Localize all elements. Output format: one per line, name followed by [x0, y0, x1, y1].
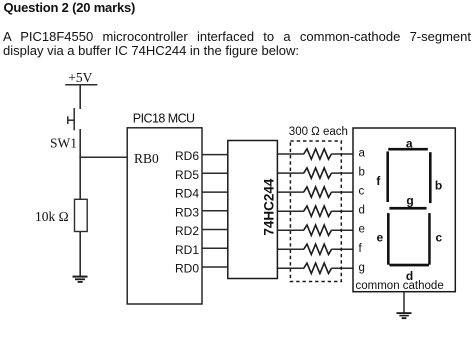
wire 74HC244 output to resistor (segment f)	[277, 248, 304, 250]
buffer U2 74HC244 box	[228, 141, 278, 279]
resistor 300 ohm (segment b)	[304, 168, 332, 178]
svg-text:common cathode: common cathode	[356, 280, 444, 292]
svg-text:RD3: RD3	[175, 205, 199, 219]
svg-text:+5V: +5V	[68, 70, 92, 85]
power +5V rail bar	[65, 84, 97, 86]
wire RD0 from MCU to 74HC244	[202, 266, 228, 268]
wire 74HC244 output to resistor (segment c)	[277, 191, 304, 193]
dashed box around resistors	[290, 141, 341, 282]
svg-text:f: f	[359, 243, 363, 255]
svg-text:f: f	[376, 174, 381, 188]
segment a bar	[388, 148, 428, 151]
svg-text:RD0: RD0	[175, 262, 199, 276]
wire resistor to display pin g	[331, 267, 353, 269]
svg-text:c: c	[436, 231, 443, 245]
ground (left, under 10k resistor)	[73, 276, 88, 283]
wire display common to ground	[403, 292, 405, 313]
svg-text:e: e	[376, 231, 383, 245]
wire resistor to display pin f	[331, 248, 353, 250]
wire +5V rail to switch	[79, 85, 81, 109]
svg-text:a: a	[406, 136, 413, 150]
microcontroller U1 PIC18 MCU box	[127, 128, 202, 304]
wire RD4 from MCU to 74HC244	[202, 191, 228, 193]
resistor 300 ohm (segment a)	[304, 149, 332, 159]
svg-text:74HC244: 74HC244	[262, 178, 277, 236]
wire RD2 from MCU to 74HC244	[202, 229, 228, 231]
wire RD5 from MCU to 74HC244	[202, 172, 228, 174]
svg-text:b: b	[435, 179, 442, 193]
svg-text:RD6: RD6	[175, 149, 199, 163]
wire resistor to display pin d	[331, 210, 353, 212]
segment g bar	[389, 207, 426, 210]
wire RD6 from MCU to 74HC244	[202, 154, 228, 156]
svg-text:RD4: RD4	[175, 187, 199, 201]
pushbutton switch SW1	[68, 108, 74, 130]
wire RD1 from MCU to 74HC244	[202, 247, 228, 249]
svg-text:c: c	[359, 186, 365, 198]
svg-text:RD1: RD1	[175, 243, 199, 257]
svg-text:d: d	[359, 205, 365, 217]
svg-text:a: a	[359, 148, 366, 160]
svg-text:PIC18 MCU: PIC18 MCU	[133, 111, 195, 125]
wire resistor to display pin b	[331, 172, 353, 174]
wire 74HC244 output to resistor (segment a)	[277, 153, 304, 155]
wire resistor to display pin c	[331, 191, 353, 193]
wire 74HC244 output to resistor (segment g)	[277, 267, 304, 269]
wire 74HC244 output to resistor (segment d)	[277, 210, 304, 212]
svg-text:RD2: RD2	[175, 224, 199, 238]
svg-text:g: g	[359, 262, 365, 274]
svg-text:g: g	[406, 194, 413, 208]
segment f bar	[386, 151, 389, 202]
wire 10k resistor to ground	[79, 232, 81, 277]
7-segment display box	[353, 128, 455, 292]
segment d bar	[389, 264, 429, 267]
resistor 300 ohm (segment c)	[304, 187, 332, 197]
svg-text:10k Ω: 10k Ω	[35, 209, 69, 224]
svg-text:b: b	[359, 167, 365, 179]
svg-text:300 Ω each: 300 Ω each	[289, 126, 348, 138]
resistor 300 ohm (segment g)	[304, 263, 332, 273]
resistor 300 ohm (segment e)	[304, 225, 332, 235]
wire resistor to display pin e	[331, 229, 353, 231]
svg-text:SW1: SW1	[50, 136, 77, 151]
resistor 10k ohm (box symbol)	[75, 199, 88, 231]
wire RD3 from MCU to 74HC244	[202, 210, 228, 212]
ground (right, under display)	[397, 312, 412, 319]
resistor 300 ohm (segment f)	[304, 244, 332, 254]
svg-text:RD5: RD5	[175, 168, 199, 182]
wire 74HC244 output to resistor (segment e)	[277, 229, 304, 231]
wire 74HC244 output to resistor (segment b)	[277, 172, 304, 174]
svg-text:RB0: RB0	[134, 151, 159, 166]
segment b bar	[429, 152, 432, 203]
resistor 300 ohm (segment d)	[304, 206, 332, 216]
wire resistor to display pin a	[331, 153, 353, 155]
svg-text:e: e	[359, 224, 365, 236]
segment e bar	[387, 213, 390, 265]
segment c bar	[428, 213, 431, 265]
wire switch to node A	[79, 129, 81, 199]
wire node A to pin RB0	[79, 156, 127, 158]
